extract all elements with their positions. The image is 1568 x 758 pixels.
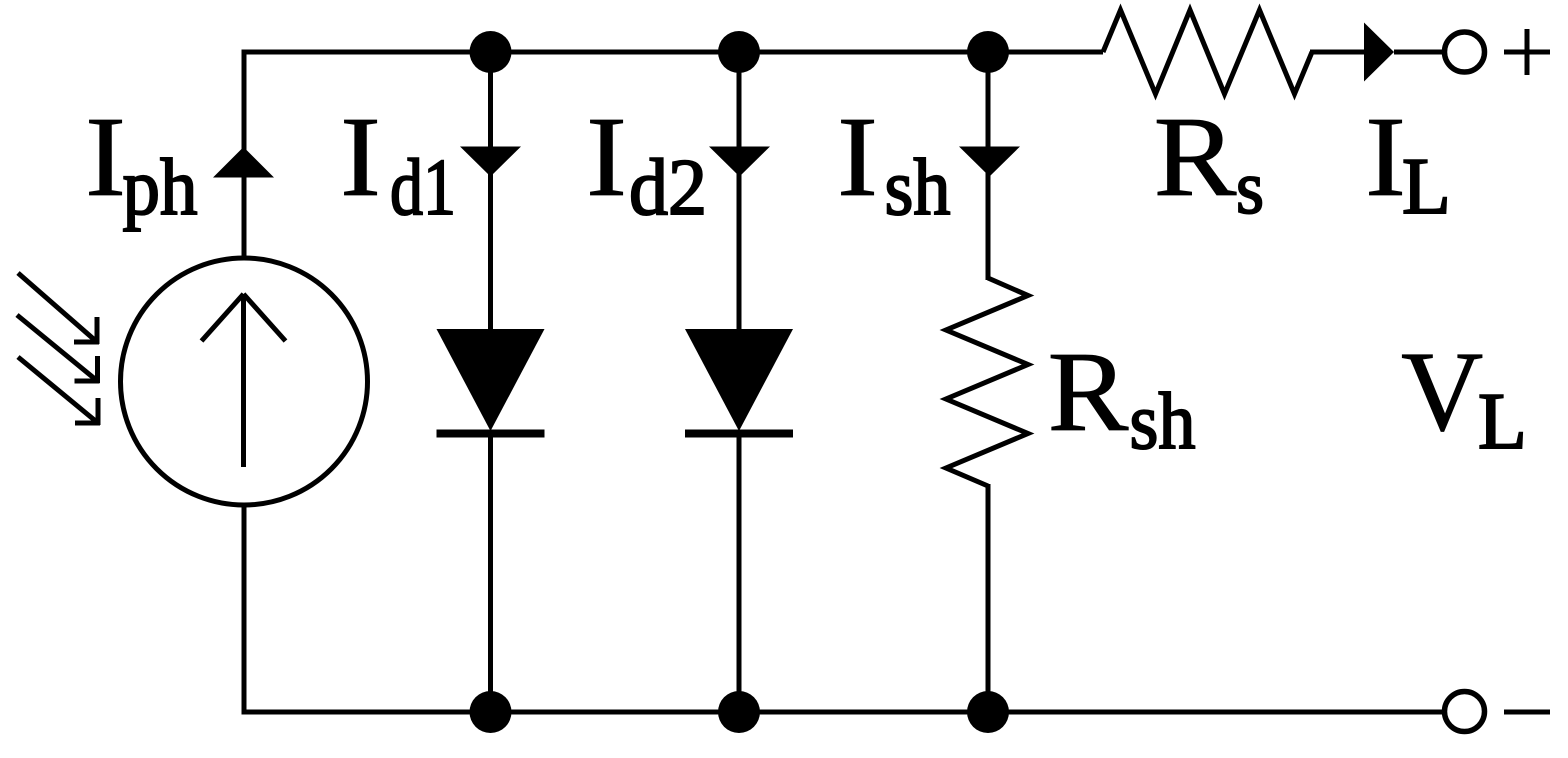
node dot top 3 [967,31,1009,73]
light arrow 1 [18,273,97,342]
svg-text:sh: sh [885,144,951,232]
terminal positive (open circle) [1445,32,1485,72]
wire diode2 branch lower [737,433,742,712]
svg-text:L: L [1478,378,1527,466]
current-direction arrow Id2 (down) [709,147,770,177]
terminal negative (open circle) [1445,692,1485,732]
wire shunt branch upper [986,52,991,280]
minus sign [1504,710,1550,715]
svg-text:R: R [1154,93,1237,220]
node dot top 1 [470,31,512,73]
current source internal arrow [241,296,246,467]
current-direction arrow IL (right) [1364,23,1394,82]
svg-text:I: I [837,93,878,220]
current-direction arrow Iph (up) [213,147,274,178]
svg-text:L: L [1402,143,1451,231]
node dot bottom 3 [967,691,1009,733]
wire arrow to terminal [1394,50,1442,55]
diode D1 cathode bar [437,430,545,438]
current-direction arrow Ish (down) [959,147,1020,177]
current-direction arrow Id1 (down) [460,147,521,177]
svg-text:I: I [85,93,126,220]
plus sign [1504,50,1550,55]
resistor Rs zigzag [1103,10,1312,94]
diode D1 triangle [437,329,545,431]
svg-text:I: I [1365,93,1406,220]
node dot bottom 2 [718,691,760,733]
wire top horizontal [242,50,1104,55]
light arrow 3 [18,357,98,423]
svg-text:d1: d1 [390,144,456,232]
wire diode1 branch lower [488,433,493,712]
svg-text:d2: d2 [629,144,707,232]
diode D2 triangle [685,329,793,431]
svg-text:ph: ph [123,144,198,232]
wire left vertical (source branch upper) [242,50,247,260]
svg-text:I: I [586,93,627,220]
wire left vertical (source branch lower) [242,504,247,715]
svg-text:V: V [1401,328,1483,455]
wire bottom horizontal [242,710,1443,715]
light arrow 2 [17,315,98,381]
svg-text:s: s [1236,146,1264,230]
wire shunt branch lower [986,484,991,712]
svg-text:sh: sh [1130,378,1196,466]
svg-text:R: R [1048,328,1129,455]
wire diode2 branch upper [737,52,742,331]
svg-text:I: I [340,93,381,220]
diode D2 cathode bar [685,430,793,438]
wire Rs to load arrow [1310,50,1364,55]
wire diode1 branch upper [488,52,493,331]
current source circle (photocurrent source) [121,258,368,505]
node dot bottom 1 [470,691,512,733]
resistor Rsh zigzag [946,278,1028,486]
node dot top 2 [718,31,760,73]
